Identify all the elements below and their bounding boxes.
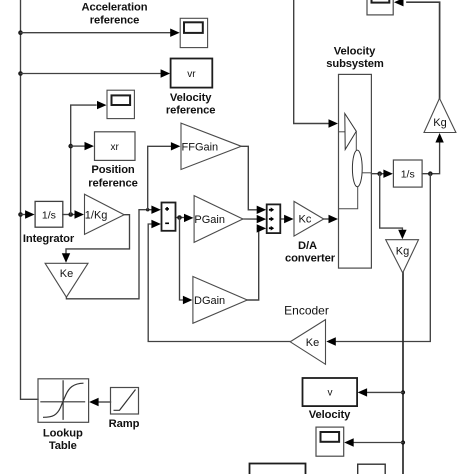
svg-text:subsystem: subsystem <box>326 58 384 70</box>
gain: DGain triangle <box>193 277 247 324</box>
wire: Kg (down) output vertical to bottom edge <box>402 273 404 474</box>
svg-text:Kg: Kg <box>396 246 409 258</box>
svg-text:1/s: 1/s <box>401 169 415 181</box>
wire: to vr block <box>21 73 162 75</box>
block: Velocity subsystem <box>339 74 372 268</box>
svg-text:Lookup: Lookup <box>43 428 83 440</box>
block: Ramp <box>111 388 139 415</box>
wire: DGain output right, up, into Mux input 3 <box>247 228 258 300</box>
svg-text:Kg: Kg <box>433 117 446 129</box>
block: Integrator 1/s <box>35 201 63 227</box>
node: junction to v display <box>401 390 405 394</box>
wire: branch down from 1/s output to Encoder input <box>335 174 430 342</box>
wire: 1/Kg output down and left to Ke input <box>66 215 130 254</box>
svg-text:DGain: DGain <box>194 295 225 307</box>
wire: to Acceleration scope <box>21 32 172 34</box>
svg-text:Encoder: Encoder <box>284 304 329 318</box>
subsystem icon: input stub and sail <box>339 131 345 133</box>
wire: Kg (up) output up and left into top scope <box>407 2 440 98</box>
svg-text:converter: converter <box>285 253 336 265</box>
svg-text:reference: reference <box>90 15 139 27</box>
block: bottom center (cropped) <box>250 464 306 474</box>
wire: FFGain output right, down, into Mux input 1 <box>241 146 257 210</box>
wire: Kc output to Velocity subsystem lower input <box>324 218 330 220</box>
svg-text:Acceleration: Acceleration <box>82 2 148 14</box>
svg-text:vr: vr <box>187 69 196 80</box>
gain: Kc triangle (D/A converter) <box>294 201 324 236</box>
gain: FFGain triangle <box>181 123 241 169</box>
node: junction at xr branch <box>68 144 73 149</box>
mux port glyph 1 <box>269 208 273 212</box>
wire: branch down then right into Kg (down) <box>380 174 403 231</box>
subsystem icon: lower internal wire <box>339 187 358 209</box>
block: Mux <box>267 204 281 233</box>
wire: PGain output into Mux input 2 <box>243 218 258 220</box>
svg-text:1/Kg: 1/Kg <box>85 210 108 222</box>
wire: sum output to PGain <box>176 217 186 219</box>
gain: Ke triangle (down) <box>45 263 88 297</box>
wire: Encoder output left then up into sum - input <box>148 224 290 342</box>
svg-text:Kc: Kc <box>299 214 312 226</box>
wire: long vertical from top edge into Velocity subsystem upper input <box>294 0 332 124</box>
wire: 1/s output right to Kg (up) input <box>422 143 440 174</box>
svg-text:D/A: D/A <box>298 240 317 252</box>
svg-text:Integrator: Integrator <box>23 233 75 245</box>
svg-text:Velocity: Velocity <box>334 46 376 58</box>
svg-text:FFGain: FFGain <box>182 141 219 153</box>
svg-text:Velocity: Velocity <box>309 409 351 421</box>
scope: Acceleration reference scope <box>180 18 207 47</box>
svg-text:reference: reference <box>166 105 215 117</box>
svg-text:xr: xr <box>111 142 120 153</box>
svg-text:1/s: 1/s <box>42 210 56 222</box>
svg-text:Ke: Ke <box>60 268 73 280</box>
svg-text:Velocity: Velocity <box>170 92 212 104</box>
wire: Velocity subsystem output to 1/s <box>371 173 386 175</box>
gain: Ke triangle Encoder (left) <box>290 320 325 365</box>
scope: bottom scope <box>316 427 344 456</box>
svg-text:Ramp: Ramp <box>109 418 140 430</box>
node: junction at 1/s output <box>428 171 433 176</box>
svg-text:PGain: PGain <box>194 214 225 226</box>
node: junction after Integrator output <box>68 212 73 217</box>
block: v (Velocity display) <box>303 378 358 406</box>
ramp icon <box>114 390 136 411</box>
svg-text:Position: Position <box>91 164 135 176</box>
mux port glyph 2 <box>269 217 273 221</box>
block: 1/s (right) <box>393 160 422 187</box>
wire: into Integrator <box>21 214 26 216</box>
scope: top right scope (cropped) <box>367 0 393 15</box>
gain: Kg triangle (up) <box>424 98 456 132</box>
subsystem icon: ellipse <box>352 150 362 187</box>
node: junction where FFGain branch leaves sum + wire <box>146 208 149 211</box>
node: junction at subsystem output <box>377 171 382 176</box>
block: vr (Velocity reference) <box>171 59 213 88</box>
mux port glyph 3 <box>269 226 273 230</box>
wire: Integrator output to 1/Kg <box>63 214 76 216</box>
lookup icon: axes <box>40 380 85 420</box>
subsystem icon: output stub <box>362 172 371 174</box>
wire: Ke output down, right, up into sum + input <box>66 210 150 299</box>
wire: Mux output to Kc <box>280 218 285 220</box>
node: junction on left bus at acceleration scope wire <box>18 30 23 35</box>
gain: PGain triangle <box>194 196 243 243</box>
svg-text:reference: reference <box>88 178 137 190</box>
node: junction on left bus at Integrator input <box>18 212 23 217</box>
gain: Kg triangle (down) <box>386 240 419 273</box>
wire: main left vertical bus from top edge down to Lookup Table <box>21 0 39 399</box>
lookup icon: sigmoid curve <box>43 383 84 417</box>
sum block with + and - <box>162 203 176 231</box>
gain: 1/Kg triangle <box>85 194 125 234</box>
wire: branch up to FFGain input <box>148 146 171 209</box>
node: junction at sum output <box>177 215 182 220</box>
wire: branch left into v display <box>364 391 403 393</box>
node: junction to bottom scope <box>401 440 405 444</box>
wire: branch left into bottom scope <box>351 442 403 444</box>
wire: branch down to DGain input <box>180 218 185 301</box>
svg-text:Table: Table <box>49 440 77 452</box>
block: Lookup Table <box>38 379 89 423</box>
wire: Ramp output left into Lookup Table <box>98 401 111 403</box>
block: xr (Position reference) <box>95 132 136 161</box>
node: junction on left bus at vr wire <box>18 71 23 76</box>
scope: position reference scope <box>107 90 134 118</box>
wire: branch up from Integrator output to xr and position scope <box>71 105 96 214</box>
svg-text:v: v <box>328 388 333 399</box>
svg-text:Ke: Ke <box>306 337 319 349</box>
wire: branch to xr block <box>71 145 85 147</box>
block: bottom right (cropped) <box>358 464 386 474</box>
